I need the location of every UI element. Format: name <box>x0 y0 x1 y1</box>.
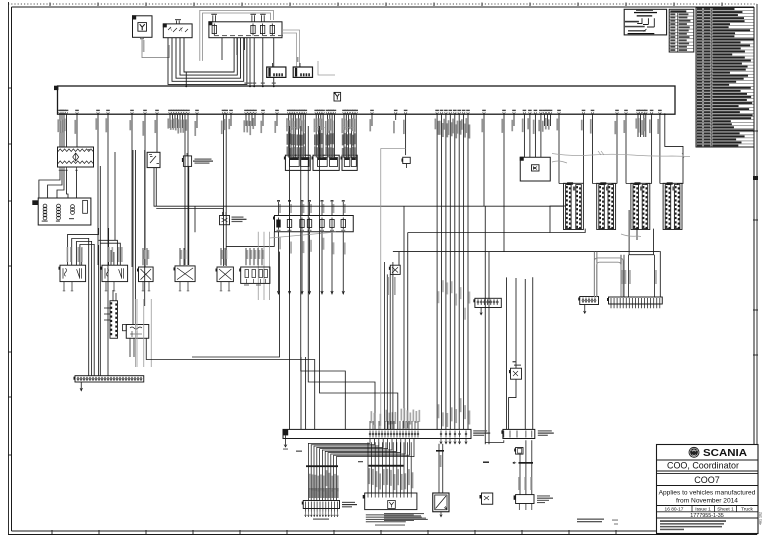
wire 1 to bottom connector <box>367 442 369 493</box>
bottom comb connector (x~303-340) <box>303 501 339 509</box>
bus pin 3 at x=64 with drop wire <box>63 112 66 114</box>
bus pin 77 at x=638 with drop wire <box>637 112 640 114</box>
gray wire labels above P1/P2 <box>67 247 69 262</box>
bus pin 20 at x=223.5 with drop wire <box>222 112 225 114</box>
second bus pin 2 <box>372 431 374 438</box>
three wires down to truck-body component <box>519 454 521 495</box>
label right: truck body builder <box>537 495 550 496</box>
fan-out elbow wire 3 <box>314 439 379 467</box>
second bus pin 9 <box>393 431 395 438</box>
feed wires P3..P6 <box>142 248 144 265</box>
bus pin 56 at x=445.9 with drop wire <box>445 112 448 114</box>
coil 1 <box>43 204 47 208</box>
bus pin 61 at x=468 with drop wire <box>467 112 470 114</box>
label below bottom comb <box>313 519 329 520</box>
ladder connector B4 left <box>665 185 671 229</box>
stub below comb strip <box>80 382 82 391</box>
pins below hatched block <box>59 167 61 170</box>
second bus pin 18 <box>440 431 442 438</box>
thick tick bar on fan bundle <box>306 465 338 467</box>
scania griffin badge <box>689 447 700 458</box>
bus pin 39 at x=320.8 with drop wire <box>319 112 322 114</box>
vertical wire x~408 from y232 down <box>407 233 409 429</box>
second bus pin 14 <box>408 431 410 438</box>
outer box around ladder pair B2 <box>597 183 616 229</box>
second bus pin 19 <box>445 431 447 438</box>
bus pin 73 at x=583.5 with drop wire <box>582 112 585 114</box>
gray squiggle right of component <box>552 161 567 163</box>
Y-box inner symbol <box>138 23 147 32</box>
legend table top right <box>696 8 754 148</box>
bus pin 43 at x=332.1 with drop wire <box>331 112 334 114</box>
inner frame <box>12 6 755 8</box>
relay coil box left (TB45/D9/TH4) <box>38 198 91 225</box>
center bottom note text <box>375 525 405 526</box>
second bus pin 1 <box>369 431 371 438</box>
part number row <box>657 517 759 519</box>
bus pin 25 at x=252 with drop wire <box>251 112 254 114</box>
fan-out elbow wire 1 <box>308 439 370 467</box>
bus pin 27 at x=263 with drop wire <box>262 112 265 114</box>
vertical wire x~404 from y206 down <box>403 206 405 428</box>
outer frame left line <box>8 2 10 535</box>
small box with X (x~390,y~265) <box>390 265 400 274</box>
component box P3 <box>139 267 154 282</box>
bus pin 9 at x=145 with drop wire <box>144 112 147 114</box>
small comb strip (x~475,y~298) <box>475 298 501 307</box>
fan-out elbow wire 8 <box>328 439 401 467</box>
bus pin 75 at x=617 with drop wire <box>616 112 619 114</box>
svg-text:1777955-1-35: 1777955-1-35 <box>690 513 724 519</box>
frame tick marks top <box>49 3 51 7</box>
second bus pin 16 <box>414 431 416 438</box>
bus pin 82 at x=659.9 with drop wire <box>659 112 662 114</box>
title row: COO7 <box>657 485 759 487</box>
fan-out elbow wire 11 <box>336 439 414 467</box>
wire rect right edge x~279.5 <box>192 252 280 357</box>
bus top-left black square marker <box>54 86 58 90</box>
fuse panel box (top) <box>209 22 282 38</box>
bus pin 28 at x=277 with drop wire <box>276 112 279 114</box>
small rect inside relay box <box>83 200 88 213</box>
dark verticals lower-left cluster <box>88 238 90 376</box>
bus pin 35 at x=303.2 with drop wire <box>302 112 305 114</box>
ladder connector B4 right <box>674 185 680 229</box>
bus pin 32 at x=295.3 with drop wire <box>294 112 297 114</box>
vertical x~485 <box>484 206 486 444</box>
horizontal comb connector strip lower-left <box>75 376 144 382</box>
bottom-left text block (4 tiny lines) <box>384 513 424 514</box>
note box bracket hooks <box>637 18 642 23</box>
bus pin 71 at x=550.5 with drop wire <box>549 112 552 114</box>
bus pin 40 at x=323.1 with drop wire <box>322 112 325 114</box>
wire 5 to bottom connector <box>381 442 383 493</box>
jogged feed wire pair4 right <box>665 114 683 184</box>
long vertical trunk wires left/mid <box>99 166 101 376</box>
additional verticals mid <box>398 252 400 266</box>
bus pin 4 at x=66.5 with drop wire <box>65 112 68 114</box>
gray long vertical x~380.75 with top jog <box>381 147 406 149</box>
bus pin 14 at x=177.5 with drop wire <box>176 112 179 114</box>
bus pin 74 at x=592.5 with drop wire <box>591 112 594 114</box>
gray cable squiggles above blocks <box>286 126 298 128</box>
elbow wire from fuse strip bottom-left going left <box>226 232 274 247</box>
fan-out elbow wire 9 <box>331 439 405 467</box>
black cap on ladder pair B1 <box>567 182 573 184</box>
wires connecting hatch: nested verticals into ladder C1 <box>113 290 116 301</box>
component box P2 (coil/diode) <box>102 265 128 281</box>
bus pin 38 at x=318.5 with drop wire <box>317 112 320 114</box>
bus pin 44 at x=334.4 with drop wire <box>333 112 336 114</box>
bus pin 47 at x=348.6 with drop wire <box>347 112 350 114</box>
coil 3 <box>71 205 75 209</box>
svg-text:SCANIA: SCANIA <box>703 448 747 459</box>
wire 7 to bottom connector <box>389 442 391 493</box>
long vertical x~289.5 <box>289 126 291 429</box>
bus pin 37 at x=316.2 with drop wire <box>315 112 318 114</box>
wire jog from small component <box>509 379 516 429</box>
bus pin 59 at x=459.2 with drop wire <box>458 112 461 114</box>
gray wires below fuse strip <box>257 232 259 300</box>
fuses inside fuse panel <box>212 25 216 33</box>
svg-text:481 162: 481 162 <box>759 512 763 525</box>
gray return wires top cluster <box>282 30 300 75</box>
outer box around ladder pair B3 <box>631 183 650 229</box>
bus pin 45 at x=344 with drop wire <box>343 112 346 114</box>
small note text left of title block <box>577 519 604 520</box>
ladder connector C1 <box>110 301 118 339</box>
connector strip w/ teeth (x~580,y~296) <box>580 297 599 305</box>
nested L wires from hatched block to relay box <box>39 170 60 199</box>
second bus pin 3 <box>375 431 377 438</box>
three connector blocks below bus middle <box>284 157 286 160</box>
svg-text:Truck: Truck <box>741 507 753 513</box>
second bus pin 7 <box>387 431 389 438</box>
gray verticals lower-left <box>135 299 137 367</box>
wire box below-left of ladder B1 <box>550 206 585 233</box>
pins w/ arrows below second bus <box>440 439 442 444</box>
ladder connector B3 right <box>642 185 648 229</box>
second bus pin 17 <box>417 431 419 438</box>
bus pin 49 at x=353.9 with drop wire <box>353 112 356 114</box>
bus pin 5 at x=77 with drop wire <box>76 112 79 114</box>
long horizontal wire y~251.6 <box>393 251 619 253</box>
wire box below ladder B3 <box>629 210 653 255</box>
wire 12 to bottom connector <box>407 442 409 493</box>
wire 13 to bottom connector <box>410 442 412 493</box>
scania logo row <box>657 459 759 461</box>
bus pin 46 at x=346.3 with drop wire <box>345 112 348 114</box>
relay box with contacts (top area) <box>163 24 192 38</box>
wires below fuse strip <box>278 232 280 294</box>
small connector on horizontal wire (x~403) <box>403 157 411 163</box>
middle vertical wires from second bus to connector box <box>369 465 404 467</box>
bus pin 33 at x=298.6 with drop wire <box>297 112 300 114</box>
bus pin 55 at x=441.5 with drop wire <box>440 112 443 114</box>
bus pin 1 at x=60 with drop wire <box>59 112 62 114</box>
bus pin 72 at x=559 with drop wire <box>558 112 561 114</box>
wire from switch down then right <box>154 168 195 207</box>
outer box around ladder pair B4 <box>663 183 682 229</box>
main coordinator unit bus rectangle <box>58 86 676 114</box>
fan-out elbow wire 7 <box>325 439 396 467</box>
bus pin 11 at x=170 with drop wire <box>169 112 172 114</box>
bus pin 17 at x=185 with drop wire <box>184 112 187 114</box>
bus pin 76 at x=626 with drop wire <box>625 112 628 114</box>
box with big X (bottom center) <box>433 493 449 512</box>
dark stacked labels on block feed wires <box>287 134 289 145</box>
gray Pi-shaped jumper between small strip and comb <box>594 258 623 297</box>
bus pin 2 at x=62 with drop wire <box>61 112 64 114</box>
second bus pin 11 <box>399 431 401 438</box>
wires dropping from fuse panel to bus <box>221 38 223 60</box>
bus pin 70 at x=547.5 with drop wire <box>546 112 549 114</box>
ladder connector B2 right <box>608 185 614 229</box>
coil 2 <box>57 204 61 208</box>
bus pin 68 at x=540.9 with drop wire <box>540 112 543 114</box>
applies-to row <box>657 505 759 507</box>
wire 4 to bottom connector <box>378 442 380 493</box>
vertical pair x~301-306 lower <box>300 357 302 429</box>
bus pin 31 at x=293.3 with drop wire <box>292 112 295 114</box>
wire 8 to bottom connector <box>392 442 394 493</box>
text label lines under connector box <box>366 514 414 515</box>
wire 9 to bottom connector <box>396 442 398 493</box>
fuse panel drop wires to bus top <box>249 38 251 86</box>
small component pair (x~516,y~447) <box>516 448 523 455</box>
bus pin 67 at x=535.4 with drop wire <box>534 112 537 114</box>
label right of second strip <box>538 430 552 431</box>
stubs below P boxes <box>63 282 65 290</box>
relay connector K2 below top cluster <box>293 67 312 77</box>
hatched fuse/resistor block left <box>58 147 94 167</box>
bus pin 41 at x=327.5 with drop wire <box>326 112 329 114</box>
black cap on ladder pair B2 <box>600 182 606 184</box>
bus pin 81 at x=651.6 with drop wire <box>650 112 653 114</box>
bus pin 26 at x=255 with drop wire <box>254 112 257 114</box>
nested loop wires between relay box and fuse panel <box>168 38 247 84</box>
fuse strip box (7 fuses) middle <box>275 216 354 232</box>
small parts table <box>669 9 694 52</box>
stubs above relay box <box>176 21 178 24</box>
pin marks on bus top where wires land <box>244 83 248 84</box>
bus pin 16 at x=182.5 with drop wire <box>181 112 184 114</box>
wires above long comb <box>620 255 622 297</box>
second bus pin 20 <box>449 431 451 438</box>
comb right-side feed from horizontal wire <box>659 252 660 297</box>
X-box bottom stub <box>440 512 442 517</box>
label right of bottom comb <box>342 502 355 503</box>
bus pin 22 at x=231 with drop wire <box>230 112 233 114</box>
bus pin 18 at x=188 with drop wire <box>187 112 190 114</box>
bus pin 23 at x=246 with drop wire <box>245 112 248 114</box>
wires feeding it <box>483 462 489 463</box>
label right of second bus <box>473 430 487 431</box>
bus pin 54 at x=437.1 with drop wire <box>436 112 439 114</box>
ladder connector B1 left <box>566 185 572 229</box>
bus pin 51 at x=372 with drop wire <box>371 112 374 114</box>
svg-text:16 80-17: 16 80-17 <box>665 507 684 513</box>
bus pin 24 at x=249 with drop wire <box>248 112 251 114</box>
small component on wire (x~510,y~368) <box>511 368 522 379</box>
Y symbol box inside bus <box>334 92 341 101</box>
bus pin 57 at x=450.3 with drop wire <box>449 112 452 114</box>
component w/ tab (x~516,y~495) truck body <box>516 495 534 504</box>
ladder connector B1 right <box>576 185 582 229</box>
wires from relay lower-left down <box>129 338 131 357</box>
bus pin 36 at x=305.3 with drop wire <box>304 112 307 114</box>
title row: COO, Coordinator <box>657 470 759 472</box>
long comb connector (x~608-662,y~297) <box>609 297 663 304</box>
bus pin 29 at x=288.7 with drop wire <box>287 112 290 114</box>
vertical x~506 <box>506 277 508 429</box>
left end wire stub of second bus <box>285 435 287 447</box>
outer frame right line <box>756 4 758 535</box>
wire 3 to bottom connector <box>374 442 376 493</box>
wide connector box P6 with sub symbols <box>241 267 270 283</box>
second bus pin 13 <box>405 431 407 438</box>
bus pin 79 at x=643.8 with drop wire <box>642 112 645 114</box>
svg-text:COO, Coordinator: COO, Coordinator <box>667 460 739 470</box>
frame tick marks bottom <box>51 530 53 535</box>
wire 11 to bottom connector <box>403 442 405 493</box>
wire 10 to bottom connector <box>399 442 401 493</box>
gray squiggle below ladder B3 <box>621 234 641 237</box>
svg-text:COO7: COO7 <box>694 475 720 485</box>
staircase wire 2 <box>308 126 375 429</box>
bus pin 12 at x=172.5 with drop wire <box>171 112 174 114</box>
bus pin 21 at x=226.2 with drop wire <box>225 112 228 114</box>
second bus pin 12 <box>402 431 404 438</box>
bus pin 8 at x=132 with drop wire <box>131 112 134 114</box>
frame tick marks left <box>8 87 12 89</box>
fan-out elbow wire 6 <box>322 439 392 467</box>
wire from second strip down-left jog <box>485 440 504 442</box>
bus pin 60 at x=463.6 with drop wire <box>462 112 465 114</box>
svg-text:Issue 1: Issue 1 <box>695 507 711 513</box>
bus pin 66 at x=529.9 with drop wire <box>529 112 532 114</box>
ladder connector B2 left <box>599 185 605 229</box>
second bus pin 8 <box>390 431 392 438</box>
second bus pin 23 <box>465 431 467 438</box>
second bus pin 21 <box>454 431 456 438</box>
gray wire labels on central bundle <box>438 404 440 418</box>
small box with text label (x~220,y~215) <box>220 216 230 225</box>
outer box around ladder pair B1 <box>564 183 584 229</box>
wire from loop down to bus pin x~186 <box>185 72 187 86</box>
bus pin 65 at x=524.4 with drop wire <box>523 112 526 114</box>
bus pin 7 at x=108 with drop wire <box>107 112 110 114</box>
outer frame top dashed line <box>8 3 757 5</box>
verticals from X-box area down to second bus <box>384 262 386 429</box>
wire from Y-box down/right (gray) <box>142 37 169 57</box>
staircase wire 3 <box>320 126 398 429</box>
bus pin 69 at x=544.5 with drop wire <box>543 112 546 114</box>
doc number cells <box>657 511 759 513</box>
wire pair feeding X-box <box>438 444 440 493</box>
bus pin 62 at x=484 with drop wire <box>483 112 486 114</box>
fuse panel top stubs <box>212 15 214 21</box>
second bus pin 4 <box>378 431 380 438</box>
second bus pin 5 <box>381 431 383 438</box>
bus pin 63 at x=504 with drop wire <box>503 112 506 114</box>
bus pin 13 at x=175 with drop wire <box>174 112 177 114</box>
vertical x~533 <box>532 277 534 429</box>
wire 2 to bottom connector <box>371 442 373 493</box>
switch component box (left mid) <box>147 152 160 167</box>
ladder connector B3 left <box>633 185 639 229</box>
copyright text block <box>660 520 726 522</box>
hook wires feeding P1 box <box>68 228 99 265</box>
tiny labels inside fuse panel bottom <box>214 35 219 36</box>
svg-text:Sheet 1: Sheet 1 <box>717 507 734 513</box>
wire 6 to bottom connector <box>385 442 387 493</box>
bus pin 34 at x=300.9 with drop wire <box>300 112 303 114</box>
fan-out elbow wire 5 <box>320 439 388 467</box>
svg-text:from November 2014: from November 2014 <box>676 498 738 505</box>
wire labels on fan bundle <box>307 467 309 501</box>
bus pin 6 at x=98 with drop wire <box>97 112 100 114</box>
relay box lower-left <box>126 325 149 339</box>
outer frame bottom line <box>8 534 757 536</box>
wire loop rectangle around top components (gray) <box>200 10 274 61</box>
component box mid-right with symbol (x~520-550) <box>520 157 550 181</box>
bus pin 53 at x=405.6 with drop wire <box>404 112 407 114</box>
fan-out elbow wire 10 <box>334 439 410 467</box>
pin connector box bottom-center (with Y) <box>365 493 417 510</box>
bus pin 52 at x=395.7 with drop wire <box>394 112 397 114</box>
bus pin 48 at x=351.6 with drop wire <box>350 112 353 114</box>
second bus pin 6 <box>384 431 386 438</box>
bus pin 50 at x=356.2 with drop wire <box>355 112 358 114</box>
small component far left-mid with label <box>183 156 191 167</box>
label text lines (3) <box>195 159 212 160</box>
component box P5 <box>217 267 233 282</box>
bus pin 19 at x=197 with drop wire <box>196 112 199 114</box>
staircase wire 1 <box>301 126 346 429</box>
frame tick marks right <box>753 130 758 132</box>
svg-text:Applies to vehicles manufactur: Applies to vehicles manufactured <box>659 490 756 497</box>
bus pin 30 at x=291 with drop wire <box>290 112 293 114</box>
note box top right <box>624 9 666 35</box>
stubs above relay connectors <box>271 63 273 67</box>
hook wires feeding P2 box <box>108 228 110 265</box>
black cap on ladder pair B3 <box>635 182 641 184</box>
long gray cable squiggle across ladder feeds <box>552 154 690 157</box>
second bus pin 22 <box>459 431 461 438</box>
second strip (x~503-535) <box>503 429 535 438</box>
long horizontal wire y~206 <box>404 205 564 207</box>
small component w/ tab (x~481,y~493) <box>482 493 493 504</box>
bus pin 78 at x=640.5 with drop wire <box>639 112 642 114</box>
title block <box>657 445 759 534</box>
bus pin 42 at x=329.8 with drop wire <box>328 112 331 114</box>
black cap on ladder pair B4 <box>667 182 673 184</box>
component box P1 (coil/diode) <box>60 265 86 281</box>
bus pin 10 at x=157 with drop wire <box>156 112 159 114</box>
bus pin 64 at x=514 with drop wire <box>513 112 516 114</box>
second bus pin 15 <box>411 431 413 438</box>
fan-out elbow wire 4 <box>317 439 383 467</box>
bus pin 80 at x=645.8 with drop wire <box>644 112 647 114</box>
component box P4 <box>175 266 195 282</box>
horizontal wire y~208.5 to box pair <box>156 208 223 210</box>
second bus pin 10 <box>396 431 398 438</box>
second bus connector strip <box>283 429 471 438</box>
relay connector K1 below top cluster <box>267 67 286 77</box>
bus pin 15 at x=180 with drop wire <box>179 112 182 114</box>
wires from bus cluster down to fuse strip top <box>278 202 280 216</box>
